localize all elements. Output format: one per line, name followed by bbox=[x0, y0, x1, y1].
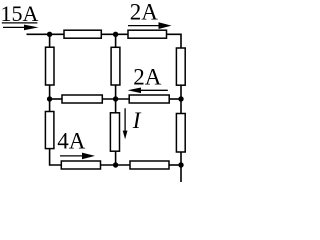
wire bottom-left corner bbox=[50, 149, 62, 165]
resistor R5 right column upper bbox=[176, 48, 185, 85]
resistor R9 middle column lower bbox=[110, 113, 119, 151]
resistor R2 top-right horizontal bbox=[128, 30, 167, 38]
resistor R10 right column lower bbox=[176, 114, 185, 153]
node middle-right bbox=[178, 96, 183, 101]
wire right column bottom stub bbox=[180, 152, 182, 182]
wire middle column upper stub bbox=[115, 34, 117, 47]
wire middle row left bbox=[50, 98, 62, 100]
svg-text:4A: 4A bbox=[57, 129, 86, 154]
arrow 4A current direction bbox=[60, 153, 95, 160]
wire top-right corner bbox=[167, 34, 182, 48]
wire bottom row right bbox=[169, 164, 181, 166]
arrow 2A middle current direction (pointing left) bbox=[128, 88, 168, 94]
resistor R12 bottom-right horizontal bbox=[130, 161, 169, 169]
arrow 2A top current direction bbox=[128, 22, 172, 29]
label 15A with underline bbox=[1, 1, 39, 26]
svg-text:2A: 2A bbox=[133, 64, 162, 89]
arrow 15A current direction bbox=[3, 25, 39, 31]
svg-text:I: I bbox=[132, 108, 142, 133]
wire left column upper stub bbox=[49, 34, 51, 47]
wire input top-left bbox=[27, 33, 65, 35]
wire top row between R1 and R2 bbox=[101, 33, 128, 35]
wire middle column lower stub bbox=[115, 151, 117, 165]
node bottom-middle bbox=[113, 162, 118, 167]
node top-middle bbox=[113, 32, 118, 37]
wire middle row right bbox=[169, 98, 181, 100]
resistor R11 bottom-left horizontal bbox=[61, 161, 100, 169]
wire middle row center bbox=[102, 98, 129, 100]
svg-text:15A: 15A bbox=[1, 1, 39, 26]
resistor R3 left column upper bbox=[46, 47, 55, 85]
wire middle column middle bbox=[115, 85, 117, 113]
arrow I current direction (pointing down) bbox=[123, 108, 128, 139]
resistor R1 top-left horizontal bbox=[64, 30, 101, 38]
node middle-left bbox=[47, 96, 52, 101]
wire left column middle bbox=[49, 85, 51, 112]
resistor R4 middle column upper bbox=[111, 47, 120, 85]
resistor R7 middle row right bbox=[129, 95, 169, 103]
node top-left bbox=[47, 32, 52, 37]
node middle-center bbox=[113, 96, 118, 101]
svg-text:2A: 2A bbox=[130, 0, 159, 24]
node bottom-right bbox=[178, 162, 183, 167]
wire right column middle bbox=[180, 85, 182, 113]
wire bottom row center bbox=[101, 164, 131, 166]
resistor R6 middle row left bbox=[62, 95, 102, 103]
resistor R8 left column lower bbox=[45, 112, 54, 149]
